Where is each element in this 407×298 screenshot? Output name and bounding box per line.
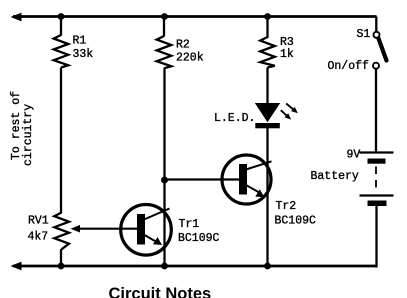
LED light emission arrow 2	[281, 110, 291, 119]
battery B1 cell 2 negative plate	[368, 201, 387, 207]
wire battery to ground rail	[375, 206, 377, 268]
svg-text:1k: 1k	[280, 48, 294, 61]
wire R3 top lead	[266, 17, 268, 39]
LED light emission arrow 1	[286, 104, 298, 114]
svg-text:Circuit Notes: Circuit Notes	[109, 285, 212, 298]
resistor R2	[157, 36, 172, 68]
arrow bottom-left to rest of circuitry	[11, 262, 22, 271]
switch S1 bottom contact	[373, 63, 379, 69]
wire R3 to LED anode	[266, 68, 268, 105]
transistor Tr2	[222, 155, 272, 204]
transistor Tr1	[121, 205, 172, 256]
svg-text:220k: 220k	[176, 52, 204, 65]
arrow top-left to rest of circuitry	[11, 13, 22, 22]
svg-text:R1: R1	[73, 35, 87, 48]
wire LED cathode through Tr2 to ground rail	[266, 128, 268, 267]
svg-text:BC109C: BC109C	[178, 232, 220, 245]
svg-text:On/off: On/off	[328, 60, 370, 73]
svg-text:9V: 9V	[347, 149, 361, 162]
svg-text:R2: R2	[176, 39, 190, 52]
svg-text:circuitry: circuitry	[22, 104, 35, 166]
svg-text:33k: 33k	[73, 48, 94, 61]
node top rail / R1 junction	[58, 13, 65, 20]
wire switch to battery	[375, 69, 377, 152]
svg-text:RV1: RV1	[28, 215, 49, 228]
potentiometer RV1 zigzag	[54, 213, 69, 250]
switch S1 top contact	[374, 32, 380, 38]
wire top supply rail	[13, 15, 377, 18]
node bottom rail / RV1 junction	[58, 263, 65, 270]
switch S1 lever	[379, 39, 387, 61]
wire R1 top lead	[60, 17, 62, 36]
wire R2 top lead	[163, 17, 165, 37]
svg-text:S1: S1	[357, 28, 371, 41]
battery B1 cell 1 negative plate	[368, 159, 386, 164]
wire RV1 bottom lead	[60, 249, 62, 267]
potentiometer RV1 wiper arrow	[79, 228, 138, 230]
wire bottom ground rail	[13, 265, 378, 268]
wire Tr1 column to ground rail	[163, 180, 165, 267]
node top rail / R3 junction	[264, 13, 271, 20]
resistor R3	[260, 37, 275, 68]
node bottom rail / Tr2 junction	[264, 263, 271, 270]
resistor R1	[54, 35, 69, 68]
LED D1 triangle anode	[255, 103, 280, 122]
battery B1 dashed link	[375, 167, 377, 194]
label To rest of circuitry (rotated)	[10, 91, 35, 166]
svg-text:Battery: Battery	[311, 170, 359, 183]
wire R2 to node A	[163, 68, 165, 180]
svg-text:Tr1: Tr1	[179, 218, 200, 231]
wire node A to Tr2 base	[165, 178, 241, 180]
svg-text:4k7: 4k7	[28, 231, 49, 244]
battery B1 cell 2 positive plate	[360, 194, 394, 196]
node top rail / R2 junction	[161, 13, 168, 20]
svg-text:Tr2: Tr2	[276, 200, 297, 213]
wire R1 to RV1	[60, 68, 62, 214]
svg-text:L.E.D.: L.E.D.	[214, 112, 255, 125]
LED D1 cathode bar	[255, 123, 279, 128]
node A junction dot R2/Tr1 collector/Tr2 base	[161, 177, 168, 184]
battery B1 cell 1 positive plate	[360, 151, 394, 153]
svg-text:BC109C: BC109C	[275, 215, 317, 228]
wire top rail to switch S1	[375, 17, 377, 32]
node bottom rail / Tr1 junction	[161, 263, 168, 270]
